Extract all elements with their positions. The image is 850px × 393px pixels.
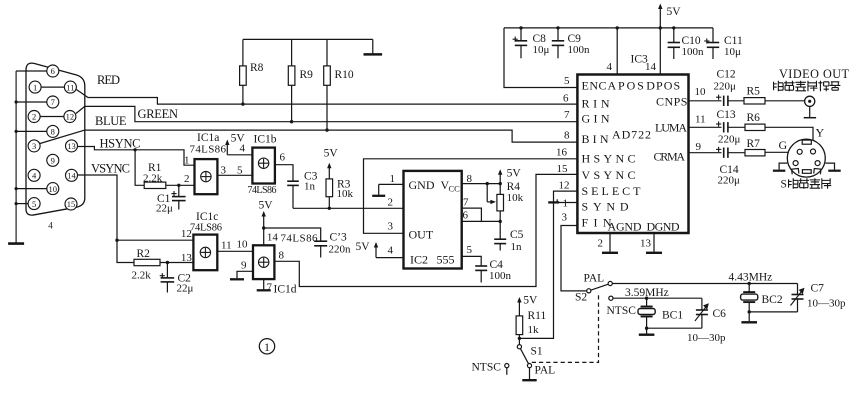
svg-text:BIN: BIN [582,132,609,146]
svg-text:GREEN: GREEN [138,107,179,121]
svg-text:5: 5 [32,199,36,209]
svg-text:5: 5 [467,244,473,256]
svg-text:3: 3 [562,212,568,224]
svg-text:DGND: DGND [647,220,680,234]
svg-text:10: 10 [49,184,58,194]
svg-text:R11: R11 [528,310,547,322]
svg-text:APOS: APOS [608,79,644,93]
svg-text:10—30p: 10—30p [807,298,846,310]
svg-text:C’3: C’3 [330,232,348,244]
svg-text:R5: R5 [747,86,761,98]
svg-text:4: 4 [32,171,37,181]
svg-text:10: 10 [237,239,249,251]
svg-text:16: 16 [556,146,568,158]
svg-text:S: S [781,179,787,191]
svg-text:RIN: RIN [582,97,610,111]
svg-text:Y: Y [816,126,825,140]
svg-text:8: 8 [564,130,570,142]
svg-text:5: 5 [237,165,243,177]
svg-text:5V: 5V [523,295,538,307]
svg-text:6: 6 [280,152,286,164]
svg-text:HSYNC: HSYNC [100,137,141,151]
svg-text:4: 4 [48,221,53,231]
svg-text:C6: C6 [713,308,727,320]
svg-text:3: 3 [32,141,36,151]
svg-text:100n: 100n [568,44,591,56]
svg-text:1: 1 [390,173,396,185]
svg-text:PAL: PAL [584,273,605,285]
svg-text:R9: R9 [300,69,314,81]
svg-text:ENC: ENC [582,79,607,93]
svg-text:2.2k: 2.2k [143,173,163,185]
svg-text:IC1c: IC1c [196,211,218,223]
svg-text:IC3: IC3 [631,54,649,66]
svg-text:PAL: PAL [535,365,556,377]
svg-text:4: 4 [607,61,613,73]
svg-text:2: 2 [184,173,190,185]
svg-text:6: 6 [51,66,55,76]
svg-text:5V: 5V [324,148,339,160]
svg-text:10μ: 10μ [533,44,550,56]
svg-text:220μ: 220μ [718,175,741,187]
svg-text:4: 4 [240,143,246,155]
svg-text:R8: R8 [250,62,264,74]
svg-text:AD722: AD722 [612,128,651,142]
svg-text:4.43MHz: 4.43MHz [729,272,773,284]
svg-text:220μ: 220μ [714,81,737,93]
svg-text:6: 6 [463,210,469,222]
svg-text:IC2: IC2 [410,253,428,267]
svg-text:2: 2 [32,112,36,122]
svg-text:12: 12 [559,179,570,191]
svg-text:2.2k: 2.2k [132,270,152,282]
svg-text:5V: 5V [356,241,371,253]
svg-text:11: 11 [66,82,74,92]
svg-text:2: 2 [388,197,394,209]
svg-text:5V: 5V [259,200,274,212]
svg-text:4: 4 [388,245,394,257]
svg-text:22μ: 22μ [177,283,194,295]
svg-text:5: 5 [564,75,570,87]
svg-text:VSYNC: VSYNC [91,162,130,176]
svg-text:C12: C12 [717,69,736,81]
svg-text:NTSC: NTSC [472,362,502,374]
svg-text:15: 15 [67,199,76,209]
svg-text:C7: C7 [811,283,825,295]
svg-text:R6: R6 [747,112,761,124]
svg-text:G: G [779,138,788,152]
svg-text:NTSC: NTSC [607,305,637,317]
svg-text:C5: C5 [510,229,524,241]
svg-text:CRMA: CRMA [654,150,686,164]
svg-text:OUT: OUT [409,228,434,242]
svg-text:R10: R10 [335,69,354,81]
svg-text:GND: GND [409,178,435,192]
svg-text:GIN: GIN [582,112,610,126]
svg-text:3.59MHz: 3.59MHz [625,287,669,299]
svg-text:R2: R2 [137,248,151,260]
svg-text:9: 9 [696,141,702,153]
svg-text:1n: 1n [304,181,316,193]
svg-text:10: 10 [695,86,707,98]
svg-text:VSYNC: VSYNC [582,168,636,182]
svg-text:BLUE: BLUE [95,114,127,128]
svg-text:6: 6 [563,93,569,105]
svg-text:14: 14 [267,232,279,244]
svg-text:74LS86: 74LS86 [190,223,222,234]
svg-text:S2: S2 [575,292,587,304]
svg-text:IC1d: IC1d [274,284,297,296]
svg-text:7: 7 [564,109,570,121]
svg-text:S1: S1 [531,346,543,358]
svg-text:10k: 10k [507,192,524,204]
svg-text:7: 7 [463,197,469,209]
svg-text:IC1a: IC1a [197,132,219,144]
svg-text:1: 1 [264,340,270,354]
svg-text:8: 8 [279,250,285,262]
svg-text:10k: 10k [337,188,354,200]
svg-text:12: 12 [66,112,75,122]
svg-text:15: 15 [557,163,569,175]
svg-text:13: 13 [67,141,76,151]
svg-text:C13: C13 [717,109,736,121]
svg-text:IC1b: IC1b [254,134,277,146]
svg-text:CNPS: CNPS [656,95,687,109]
svg-text:3: 3 [388,221,394,233]
svg-text:1: 1 [33,82,37,92]
svg-text:AGND: AGND [608,220,642,234]
svg-text:1n: 1n [511,241,523,253]
svg-text:5V: 5V [507,168,522,180]
svg-text:11: 11 [695,114,706,126]
svg-text:HSYNC: HSYNC [582,152,636,166]
svg-text:11: 11 [221,240,232,252]
svg-text:7: 7 [267,282,273,294]
svg-text:BC2: BC2 [762,294,783,306]
svg-text:13: 13 [640,238,652,250]
svg-text:2: 2 [598,238,604,250]
svg-text:220μ: 220μ [718,134,741,146]
svg-text:8: 8 [467,173,473,185]
svg-text:10μ: 10μ [724,46,741,58]
svg-text:1: 1 [563,198,569,210]
svg-text:12: 12 [181,228,192,240]
svg-text:22μ: 22μ [156,203,173,215]
svg-text:RED: RED [97,73,120,87]
svg-text:5V: 5V [667,6,682,18]
svg-text:DPOS: DPOS [646,79,680,93]
svg-text:74LS86: 74LS86 [248,185,277,196]
svg-text:74LS86: 74LS86 [281,233,319,245]
svg-text:9: 9 [51,156,55,166]
svg-text:100n: 100n [682,46,705,58]
svg-text:220n: 220n [329,244,352,256]
svg-text:1: 1 [184,155,190,167]
svg-text:VIDEO OUT: VIDEO OUT [779,67,850,81]
svg-text:100n: 100n [489,270,512,282]
svg-text:74LS86: 74LS86 [190,144,227,156]
svg-text:BC1: BC1 [662,310,683,322]
svg-text:8: 8 [51,127,55,137]
svg-text:7: 7 [51,97,55,107]
svg-text:555: 555 [437,253,455,267]
svg-text:1k: 1k [528,324,540,336]
svg-text:14: 14 [67,171,76,181]
svg-text:9: 9 [241,260,247,272]
svg-text:R7: R7 [747,138,761,150]
svg-text:CC: CC [449,184,461,194]
svg-text:13: 13 [181,252,193,264]
svg-text:LUMA: LUMA [655,121,687,135]
svg-text:SELECT: SELECT [582,184,642,198]
svg-text:10—30p: 10—30p [687,332,726,344]
